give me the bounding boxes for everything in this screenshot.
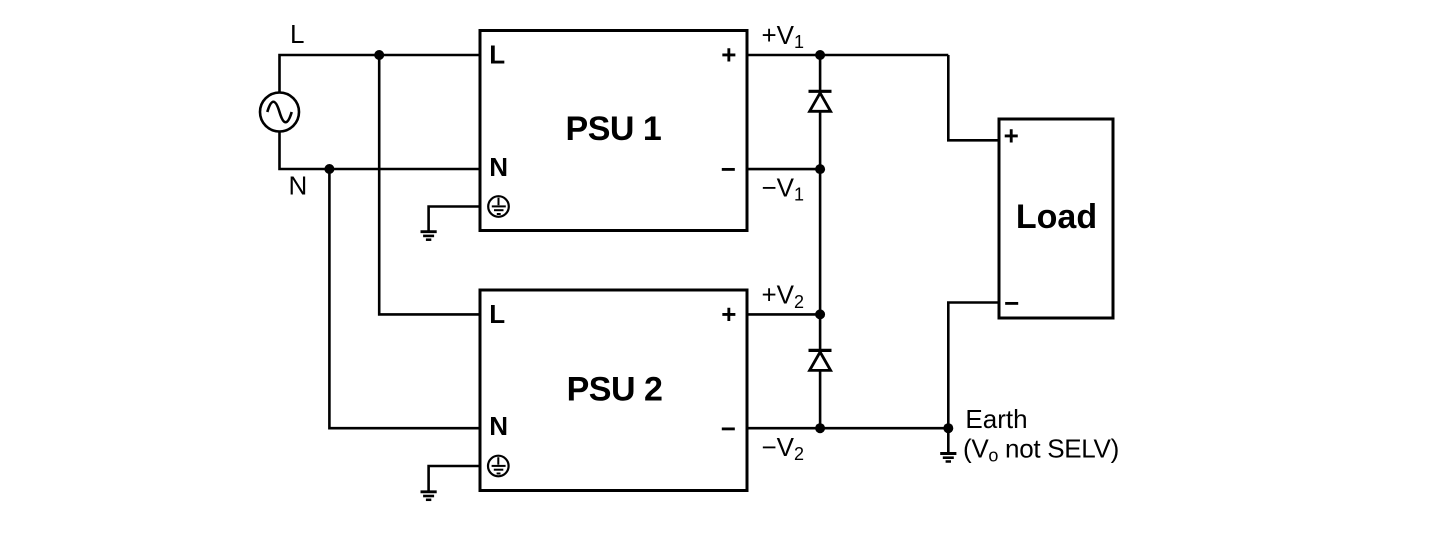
svg-text:−V1: −V1	[762, 172, 805, 204]
svg-text:+: +	[721, 40, 736, 70]
psu2 box	[480, 290, 747, 491]
svg-text:−V2: −V2	[762, 432, 805, 464]
node Earth junction	[943, 423, 953, 433]
earth terminal symbol PSU1	[488, 196, 509, 217]
svg-text:+V2: +V2	[762, 280, 805, 312]
node +V2 junction	[815, 309, 825, 319]
svg-text:L: L	[290, 19, 304, 49]
svg-text:L: L	[489, 40, 505, 70]
wire PSU2 - output through -V2 node to Earth junction	[747, 427, 948, 430]
node -V2 junction	[815, 423, 825, 433]
wire PSU1 earth stub	[429, 207, 480, 231]
svg-text:+: +	[1004, 120, 1019, 150]
wire diode D1 anode to -V1 node	[819, 112, 822, 170]
wire PSU1 + output to node +V1	[747, 54, 948, 57]
svg-text:−: −	[721, 154, 736, 184]
wire L branch down to PSU2 L	[379, 55, 480, 314]
wire PSU2 earth stub	[429, 466, 480, 491]
psu1 box	[480, 31, 747, 231]
wire +V1 down to Load +	[948, 55, 999, 140]
diode D1	[809, 91, 832, 111]
svg-text:N: N	[489, 411, 508, 441]
svg-text:PSU 2: PSU 2	[567, 371, 663, 409]
diode D2	[809, 350, 832, 370]
svg-text:Load: Load	[1016, 198, 1097, 236]
svg-text:+: +	[721, 299, 736, 329]
svg-text:N: N	[289, 171, 308, 201]
wire Earth junction to ground	[947, 428, 950, 452]
node +V1 junction	[815, 50, 825, 60]
svg-text:PSU 1: PSU 1	[566, 110, 662, 148]
ground under PSU1	[421, 232, 437, 240]
wire -V1 node down to +V2 node	[819, 169, 822, 314]
load box	[999, 119, 1113, 318]
ground at Earth node	[940, 454, 956, 462]
svg-text:−: −	[1004, 288, 1019, 318]
wire +V1 node to diode D1 cathode	[819, 55, 822, 91]
wire N from AC source bottom to PSU1 N	[280, 132, 481, 170]
wire +V2 node to diode D2 cathode	[819, 314, 822, 350]
wire N branch down to PSU2 N	[329, 169, 480, 428]
wire PSU1 - output to node -V1	[747, 168, 820, 171]
earth terminal symbol PSU2	[488, 456, 509, 477]
wire PSU2 + output to node +V2	[747, 313, 820, 316]
node -V1 junction	[815, 164, 825, 174]
svg-text:L: L	[489, 299, 505, 329]
wire Load - back to Earth junction	[948, 303, 999, 429]
svg-text:+V1: +V1	[762, 20, 805, 52]
svg-text:(Vo not SELV): (Vo not SELV)	[963, 433, 1119, 465]
svg-text:Earth: Earth	[965, 404, 1027, 434]
node N junction	[324, 164, 334, 174]
wire diode D2 anode to -V2 node	[819, 371, 822, 428]
node L junction	[374, 50, 384, 60]
svg-text:−: −	[721, 413, 736, 443]
ground under PSU2	[421, 492, 437, 500]
ac source V	[260, 93, 299, 132]
svg-text:N: N	[489, 152, 508, 182]
wire L from AC source top to PSU1 L	[280, 55, 481, 93]
